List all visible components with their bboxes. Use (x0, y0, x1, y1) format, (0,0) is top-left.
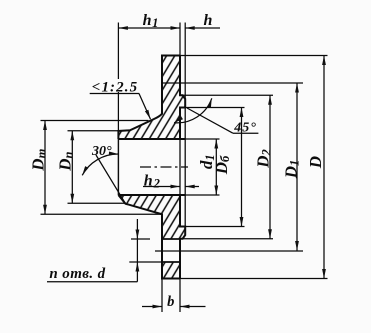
n otv d note (131, 238, 150, 240)
svg-text:n отв. d: n отв. d (49, 266, 105, 282)
svg-text:h2: h2 (144, 172, 161, 190)
D6 dimension (185, 107, 244, 109)
svg-text:30°: 30° (91, 144, 112, 159)
b dimension (161, 279, 163, 313)
D2 dimension (180, 94, 273, 96)
hatch fill lower hub+flange section above bolt hole (118, 195, 185, 239)
svg-text:b: b (167, 294, 174, 310)
svg-text:<1:2.5: <1:2.5 (92, 80, 138, 96)
part outline: upper hub + flange (118, 56, 180, 140)
centerline axis (140, 166, 188, 168)
D1 dimension (162, 82, 303, 84)
extension line x=180 up (179, 23, 181, 56)
extension line x=118.8 up to dim h1 (117, 23, 119, 132)
lower hub: weld bevel and 1:2.5 taper (118, 195, 180, 279)
svg-text:D: D (306, 156, 325, 169)
svg-text:D2: D2 (254, 149, 274, 169)
pipe end opening edge (117, 139, 119, 195)
30 deg angle arc (82, 154, 118, 175)
30 deg bevel construction line (96, 155, 126, 204)
bolt hole edges (162, 238, 180, 240)
svg-text:45°: 45° (233, 121, 257, 136)
dimension h1 (118, 27, 180, 29)
bore lower edge (118, 194, 185, 196)
svg-text:D1: D1 (281, 160, 301, 180)
upper face, chamfer and gasket ring (180, 56, 185, 140)
taper leader 1:2.5 (139, 94, 151, 120)
bore upper edge (118, 138, 185, 140)
svg-text:h1: h1 (143, 12, 159, 30)
ring circle edge through bore (184, 108, 186, 227)
D dimension (180, 55, 328, 57)
Dm dimension (left) (41, 120, 149, 122)
hatch fill lower flange section below bolt hole (162, 262, 180, 279)
svg-text:Dm: Dm (28, 148, 48, 171)
h2 dimension (143, 186, 180, 188)
hatch fill upper flange+hub section (118, 56, 185, 140)
extension line x=185.2 up (184, 23, 186, 100)
Dn dimension (left inner) (68, 130, 119, 132)
dimension h tail (185, 27, 220, 29)
lower face, ring and chamfer (180, 195, 185, 279)
svg-text:Dn: Dn (55, 151, 75, 171)
d1 dimension (185, 138, 219, 140)
svg-text:h: h (204, 12, 213, 29)
face circle edge through bore (179, 139, 181, 195)
45 deg chamfer arc (174, 98, 212, 123)
45 deg leader (187, 108, 233, 133)
